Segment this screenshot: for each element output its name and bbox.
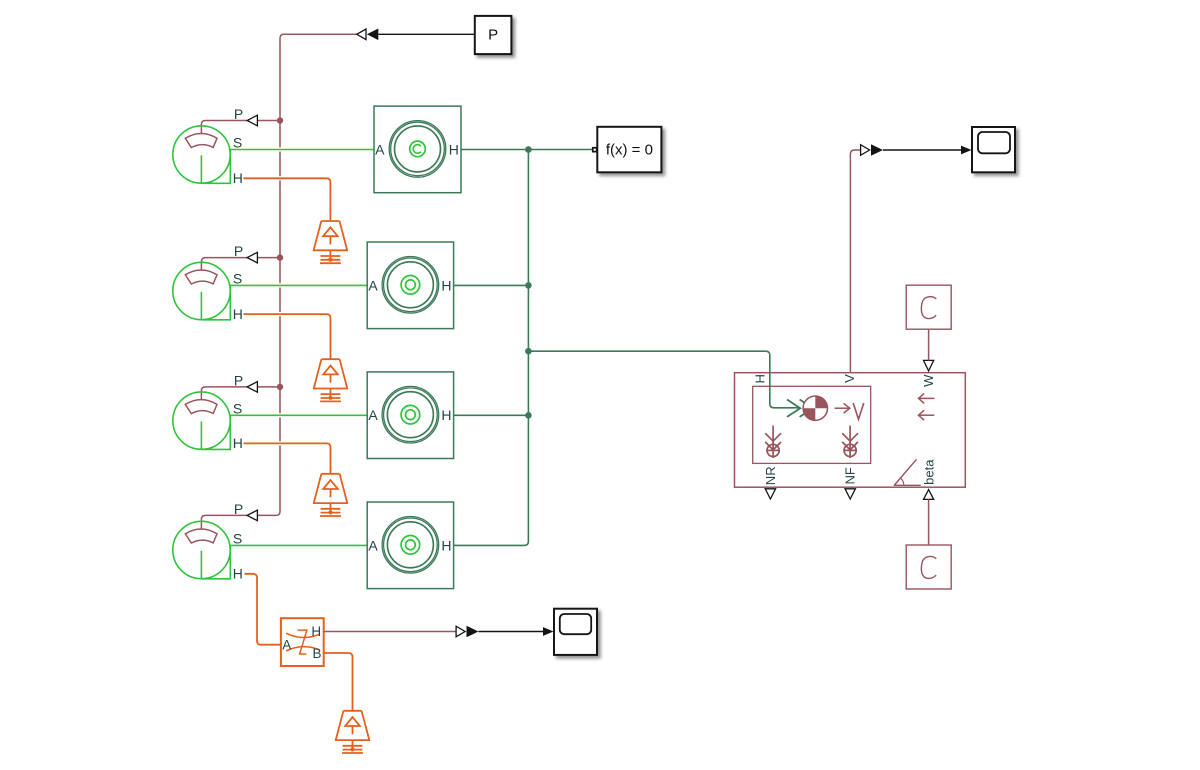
svg-text:H: H bbox=[233, 170, 243, 186]
svg-text:H: H bbox=[441, 537, 451, 553]
svg-text:beta: beta bbox=[921, 459, 936, 485]
svg-text:P: P bbox=[234, 501, 243, 517]
svg-text:H: H bbox=[233, 435, 243, 451]
svg-text:W: W bbox=[921, 374, 936, 387]
svg-text:A: A bbox=[375, 141, 385, 157]
svg-text:P: P bbox=[234, 243, 243, 259]
svg-text:S: S bbox=[233, 271, 242, 287]
svg-text:S: S bbox=[233, 401, 242, 417]
svg-text:H: H bbox=[233, 306, 243, 322]
svg-text:H: H bbox=[449, 141, 459, 157]
svg-text:S: S bbox=[233, 135, 242, 151]
svg-text:S: S bbox=[233, 531, 242, 547]
svg-text:A: A bbox=[368, 537, 378, 553]
svg-text:H: H bbox=[441, 277, 451, 293]
svg-text:V: V bbox=[842, 374, 857, 383]
svg-text:H: H bbox=[311, 624, 321, 639]
svg-text:B: B bbox=[312, 646, 321, 661]
svg-text:P: P bbox=[234, 372, 243, 388]
svg-text:NR: NR bbox=[763, 466, 778, 485]
svg-text:NF: NF bbox=[843, 467, 858, 484]
svg-text:A: A bbox=[282, 638, 291, 653]
svg-text:A: A bbox=[368, 277, 378, 293]
svg-text:H: H bbox=[233, 566, 243, 582]
svg-text:H: H bbox=[441, 407, 451, 423]
svg-text:H: H bbox=[753, 374, 768, 383]
svg-text:f(x) = 0: f(x) = 0 bbox=[606, 142, 653, 159]
svg-text:P: P bbox=[488, 27, 498, 44]
svg-text:P: P bbox=[234, 106, 243, 122]
svg-text:A: A bbox=[368, 407, 378, 423]
